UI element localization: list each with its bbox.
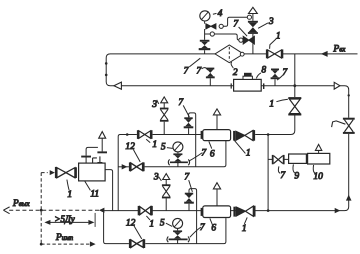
- needle cock 7 lower loop: [184, 193, 194, 211]
- svg-text:9: 9: [294, 171, 299, 181]
- wire upper regulator line mid: [153, 134, 201, 136]
- svg-text:7: 7: [184, 66, 190, 76]
- vent to atmosphere arrow (open): [249, 7, 258, 13]
- vent arrow above regulator 6 upper: [213, 109, 220, 115]
- svg-text:1: 1: [67, 190, 72, 200]
- label 4: [213, 9, 223, 19]
- label 10 row: [313, 165, 323, 182]
- svg-text:7: 7: [282, 68, 288, 78]
- pressure gauge PI 4: [200, 11, 210, 24]
- outlet dashed line Pvyh: [9, 209, 102, 211]
- vent stack 3 lower: valve: [162, 180, 171, 211]
- vent stack 3 upper: arrow: [161, 97, 168, 103]
- valve 7 on branch 2 (filled bowtie): [243, 36, 254, 44]
- filter 2 (diamond with dashed element): [215, 45, 243, 63]
- flow arrow inlet (filled left): [321, 51, 328, 57]
- wire upper impulse line mid to bend under regulator: [145, 141, 226, 167]
- node junction riser/H2: [293, 84, 296, 87]
- impulse arrow (filled right): [90, 241, 96, 246]
- valve 1 upper regulator line: [137, 130, 153, 139]
- label 1 after regulator upper: [234, 140, 250, 158]
- wire lower impulse line mid to bend under regulator: [145, 218, 226, 244]
- svg-text:1: 1: [269, 99, 274, 109]
- svg-text:Pимп: Pимп: [55, 233, 74, 243]
- wire inlet riser x295 upper: [294, 54, 296, 97]
- relief valve stack: wire stem from H1: [252, 34, 254, 54]
- bypass lower valve on riser x349 (X type with handle): [332, 118, 355, 134]
- vent arrow above regulator 6 lower: [213, 183, 220, 189]
- flow arrow on outlet line right (filled right): [335, 208, 341, 213]
- label 7 upper loop: [178, 98, 189, 117]
- node flange circle on branch 2: [210, 32, 214, 36]
- svg-text:5: 5: [161, 142, 166, 152]
- label 1 for bypass valve: [269, 99, 288, 109]
- label 11: [85, 181, 99, 199]
- box 11 top fittings: [81, 147, 102, 163]
- svg-text:1: 1: [246, 148, 251, 158]
- valve before box 11: [55, 167, 77, 178]
- flow arrow on H2 (open left): [114, 82, 122, 89]
- label 1 upper regulator valve: [146, 139, 157, 150]
- svg-text:7: 7: [184, 172, 190, 182]
- wire box11 outlet down to outlet line: [105, 170, 113, 211]
- label 5 lower: [160, 218, 172, 228]
- lower regulator line: valve 1: [138, 206, 153, 215]
- valve 12 lower impulse: [129, 239, 145, 248]
- valve 1 after regulator 6 upper: [233, 130, 255, 141]
- svg-text:7: 7: [280, 171, 286, 181]
- node dots on V1: [105, 62, 108, 65]
- svg-text:5: 5: [160, 218, 165, 228]
- flow arrow upper impulse (filled right): [122, 164, 128, 169]
- svg-text:7: 7: [201, 148, 207, 158]
- valve 12 upper impulse: [129, 162, 145, 171]
- svg-text:3: 3: [268, 17, 274, 27]
- valve 1 on inlet line H1: [266, 49, 283, 58]
- label 3: [258, 17, 274, 28]
- row 7-9-10: wire from x268: [268, 158, 308, 161]
- dashed vertical impulse x41: [40, 173, 42, 245]
- label 3 upper: [151, 100, 159, 110]
- label 12 upper: [125, 142, 140, 162]
- label 1 for box valve: [67, 180, 72, 200]
- valve 7 on row (X type): [272, 155, 285, 164]
- dimension 5Du: line and arrows: [44, 213, 95, 227]
- meter vessel 8: [231, 73, 265, 91]
- vent of box 11: T-bar, stem, arrow: [97, 132, 107, 154]
- label 7 lower gauge cock: [190, 223, 206, 237]
- flow arrow on riser x349 (filled up): [346, 195, 352, 201]
- node dot at gauge5 fitting lower: [176, 238, 178, 240]
- label 3 lower: [153, 173, 162, 183]
- regulator 6 lower: [201, 189, 231, 217]
- valve 1 after regulator 6 lower: [233, 206, 255, 217]
- device 10 (rect with vent): [308, 144, 330, 164]
- node dot at gauge5 fitting upper: [177, 161, 179, 163]
- safety shutoff device 11 (box): [79, 163, 106, 181]
- node dots on dashed vertical: [40, 209, 43, 212]
- label 6 upper: [209, 141, 215, 159]
- cock 7 on H1 below gauge assembly: [199, 40, 211, 54]
- wire bypass riser lower + outlet line right: [256, 134, 349, 211]
- svg-text:3: 3: [151, 100, 157, 110]
- node circle junction at gauge branch 1: [247, 15, 251, 19]
- node junction dot x127: [126, 133, 129, 136]
- label 1 after regulator lower: [242, 217, 247, 234]
- svg-text:2: 2: [233, 68, 238, 78]
- svg-text:6: 6: [210, 149, 215, 159]
- node flange circle right of gauge cock: [219, 24, 223, 28]
- wire gauge stem down to cock on H1: [204, 29, 206, 40]
- node dot junction x268 upper: [267, 133, 270, 136]
- wire lower needle loop: [189, 189, 197, 244]
- device 9 (small rect): [289, 154, 307, 163]
- node dot junction x268 lower: [267, 209, 270, 212]
- node arrow at junction outlet (filled left): [99, 208, 105, 213]
- label 7 for needle cock 210: [196, 66, 208, 76]
- gauge 5 upper assembly: [168, 142, 189, 167]
- wire inlet main line H1 with bends to H2: [106, 54, 357, 118]
- label 1 lower valve: [146, 216, 154, 230]
- svg-text:Pвых: Pвых: [12, 199, 31, 209]
- flow arrow into valve (filled right): [50, 170, 55, 175]
- wire lower impulse line from outlet: [104, 211, 129, 244]
- label 7 upper gauge cock: [189, 148, 208, 161]
- svg-text:Pвх: Pвх: [332, 44, 346, 54]
- safety relief valve 3 (vertical bowtie): [248, 21, 258, 34]
- svg-text:1: 1: [152, 140, 157, 150]
- svg-text:1: 1: [242, 224, 247, 234]
- vent stack 3 upper: valve: [160, 103, 169, 135]
- label 12 lower: [126, 218, 142, 239]
- label 9 row: [293, 164, 299, 181]
- impulse dashed line Pimp: [41, 243, 89, 245]
- svg-text:3: 3: [153, 173, 159, 183]
- label 2: [231, 62, 238, 78]
- wire stem valve3 to vent: [252, 14, 254, 21]
- svg-text:11: 11: [90, 189, 99, 199]
- flow arrow on H2 right (open right): [334, 82, 340, 89]
- label 1 for inlet valve: [270, 31, 281, 48]
- node tick on riser x349: [348, 94, 350, 96]
- needle cock 7 upper loop: [184, 117, 194, 134]
- label 7 leader to cock on H1: [184, 58, 201, 76]
- node circle at filter outlet: [240, 52, 244, 56]
- node flange circle before valve 7 branch 2: [239, 38, 243, 42]
- label 7 for branch valve: [233, 20, 247, 37]
- outlet arrow (open left): [3, 207, 9, 214]
- svg-text:7: 7: [233, 20, 239, 30]
- svg-text:4: 4: [218, 9, 223, 19]
- label 6 lower: [210, 218, 217, 233]
- wire inlet riser x295 lower with bend to regulator line: [255, 116, 295, 135]
- wire gauge branch 1 to relief stack: [223, 17, 247, 26]
- wire upper impulse line from x118: [118, 166, 129, 168]
- label 7 lower loop: [184, 172, 192, 192]
- label 5 upper: [161, 142, 173, 152]
- label 7 for needle cock 275: [277, 68, 288, 80]
- wire upper regulator line left with bend down x118: [118, 135, 137, 211]
- wire vertical x268: [267, 135, 269, 211]
- svg-text:7: 7: [196, 66, 202, 76]
- needle cock 7 on H2 at x210: [206, 68, 215, 86]
- wire outlet line left part: [104, 210, 236, 212]
- safety shutoff valve assembly: dashed impulse inlet: [41, 172, 48, 174]
- regulator 6 upper: [201, 115, 231, 141]
- wire upper needle loop: [189, 113, 196, 167]
- vent stack 3 lower: arrow: [163, 174, 170, 180]
- label 8: [256, 65, 266, 78]
- wire upper regulator line right segment: [255, 134, 290, 136]
- wire gauge branch 2: [205, 34, 239, 40]
- valve gauge cock (filled bowtie) under gauge 4: [206, 24, 216, 29]
- svg-text:1: 1: [276, 31, 281, 41]
- bypass valve 1 on riser x295 (vertical bowtie open): [288, 97, 301, 115]
- needle cock 7 on H2 at x275: [271, 69, 280, 86]
- label 7 row: [278, 166, 286, 181]
- gauge 5 lower assembly: [167, 218, 189, 243]
- svg-text:8: 8: [261, 65, 266, 75]
- svg-text:>5Ду: >5Ду: [54, 214, 74, 224]
- svg-text:7: 7: [200, 223, 206, 233]
- svg-text:1: 1: [149, 219, 154, 229]
